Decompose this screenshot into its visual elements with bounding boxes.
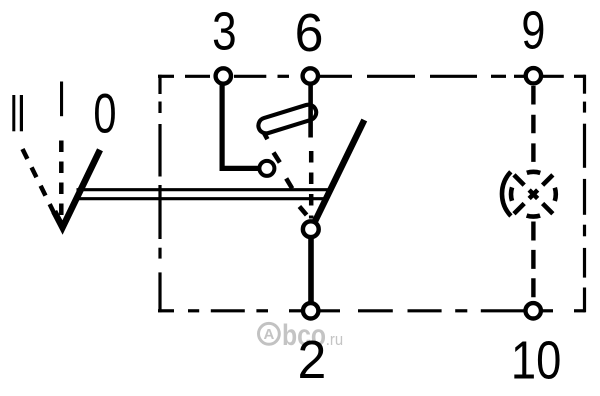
watermark abco.ru logo xyxy=(259,318,344,352)
svg-text:.ru: .ru xyxy=(326,331,343,349)
dashed box right border xyxy=(583,75,586,312)
contact bridge capsule xyxy=(256,103,318,136)
actuator rod (double line) xyxy=(77,188,329,191)
svg-text:2: 2 xyxy=(297,330,326,390)
dashed wire lamp to terminal 10 xyxy=(531,222,535,303)
dashed box top border xyxy=(158,75,586,78)
dashed contact position line (diagonal dashes) xyxy=(260,126,306,215)
lamp L1 (dashed circle with X) xyxy=(502,172,556,217)
label 2 xyxy=(297,330,326,390)
node pivot circle xyxy=(303,221,319,237)
svg-text:6: 6 xyxy=(295,3,324,63)
label 0 position xyxy=(93,84,116,145)
dashed wire terminal 9 to lamp xyxy=(531,86,535,170)
terminal 6 circle xyxy=(303,68,318,83)
wire node to terminal 2 xyxy=(308,228,314,311)
svg-text:3: 3 xyxy=(212,1,236,61)
terminal 10 circle xyxy=(526,303,541,318)
svg-text:A: A xyxy=(263,326,274,343)
svg-text:9: 9 xyxy=(521,1,545,61)
switch lever (moving contact) xyxy=(312,120,364,228)
terminal 3 circle xyxy=(216,68,231,83)
wire terminal 6 stub xyxy=(308,76,313,138)
wire terminal 3 to fixed contact xyxy=(222,76,264,168)
dashed lever position line to II xyxy=(23,149,56,215)
label 6 xyxy=(295,3,324,63)
terminal 9 circle xyxy=(526,68,541,83)
svg-text:10: 10 xyxy=(511,330,561,391)
label I position xyxy=(60,82,63,117)
label 10 xyxy=(511,330,561,391)
terminal 2 circle xyxy=(303,303,318,318)
label 9 xyxy=(521,1,545,61)
fixed contact circle xyxy=(259,161,274,176)
label 3 xyxy=(212,1,236,61)
svg-text:0: 0 xyxy=(93,84,116,145)
dashed box bottom border xyxy=(158,309,586,312)
dashed box left border xyxy=(158,75,161,312)
dashed contact position line (vertical, node to bridge) xyxy=(309,151,314,219)
dashed lever position line to I xyxy=(59,141,64,216)
actuator lever (position 0) xyxy=(54,150,100,228)
label II position xyxy=(12,95,15,131)
